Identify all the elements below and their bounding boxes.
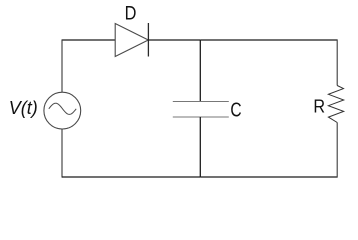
diode D — [115, 23, 148, 57]
svg-text:V(t): V(t) — [9, 98, 38, 118]
wire right upper (corner down to resistor) — [336, 39, 338, 85]
wire middle upper (top node down to capacitor) — [199, 40, 201, 102]
wire left upper (corner down to source) — [61, 39, 63, 92]
source V(t) — [44, 92, 81, 129]
capacitor C — [173, 102, 229, 118]
resistor R — [328, 86, 343, 123]
wire bottom right (bottom node to right corner) — [200, 176, 337, 178]
wire diode cathode to top node — [148, 39, 200, 41]
wire bottom left (corner to bottom node) — [62, 176, 200, 178]
svg-text:D: D — [125, 3, 137, 24]
svg-text:R: R — [313, 97, 325, 117]
wire right lower (resistor to bottom corner) — [336, 123, 338, 178]
svg-text:C: C — [230, 100, 241, 122]
wire top node to top-right corner — [200, 39, 337, 41]
wire left lower (source bottom to corner) — [61, 129, 63, 178]
wire top-left (source top to diode anode) — [62, 39, 115, 41]
wire middle lower (capacitor to bottom node) — [199, 117, 201, 177]
